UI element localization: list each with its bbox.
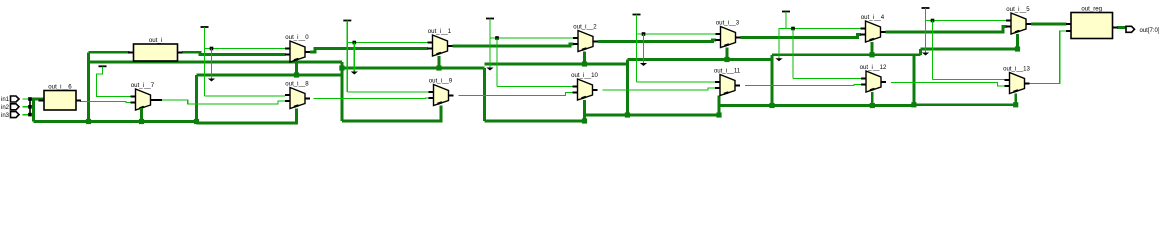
svg-text:out_i__10: out_i__10 [571,72,598,79]
svg-text:in3: in3 [1,113,10,119]
svg-text:out_i__13: out_i__13 [1003,66,1030,73]
svg-text:out_i__8: out_i__8 [285,81,309,88]
svg-text:out_i__6: out_i__6 [48,84,72,91]
svg-text:out[7:0]: out[7:0] [1140,28,1159,34]
svg-text:out_i__0: out_i__0 [285,34,309,41]
svg-text:out_i__3: out_i__3 [716,20,740,27]
svg-text:out_i__2: out_i__2 [573,24,597,31]
svg-text:in2: in2 [1,105,10,111]
svg-text:out_i: out_i [149,37,162,44]
svg-text:out_i__12: out_i__12 [860,64,887,71]
svg-text:out_i__5: out_i__5 [1006,6,1030,13]
svg-text:in1: in1 [1,97,10,103]
svg-text:out_i__4: out_i__4 [861,14,885,21]
svg-text:out_i__11: out_i__11 [714,68,741,75]
svg-text:out_i__7: out_i__7 [131,82,155,89]
svg-text:out_i__1: out_i__1 [428,28,452,35]
svg-text:out_i__9: out_i__9 [429,78,453,85]
svg-text:out_reg: out_reg [1081,6,1102,13]
